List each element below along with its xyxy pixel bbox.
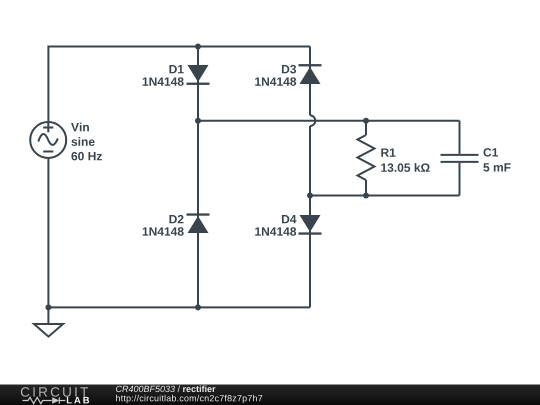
label D3 value 1N4148 <box>255 77 296 86</box>
voltage source Vin (sine) <box>30 122 66 158</box>
junction D1-D2 node to mid rail <box>195 118 201 124</box>
label C1 <box>483 148 498 157</box>
label R1 <box>381 148 395 156</box>
wire low rail <box>310 195 460 197</box>
footer title CR400BF5033 / rectifier <box>116 385 215 392</box>
diode D4 (1N4148, pointing down) <box>299 215 322 235</box>
junction bottom rail / source / ground <box>45 304 51 310</box>
label D2 value 1N4148 <box>143 227 184 236</box>
label D1 <box>169 65 183 73</box>
wire C1 top lead <box>459 121 461 154</box>
logo resistor squiggle and diode <box>23 397 66 403</box>
wire D1-D2 branch <box>197 47 199 308</box>
junction D3-D4 node to low rail <box>307 193 313 199</box>
label D4 value 1N4148 <box>255 227 296 236</box>
diode D2 (1N4148, pointing up) <box>187 213 210 233</box>
wire mid rail <box>198 120 460 122</box>
label sine <box>71 137 94 146</box>
label 60 Hz <box>71 152 101 161</box>
wire source bottom to bottom rail <box>48 158 310 307</box>
capacitor C1 <box>441 155 479 162</box>
diode D3 (1N4148, pointing up) <box>299 64 322 84</box>
label D3 <box>282 65 296 74</box>
label D1 value 1N4148 <box>143 77 184 86</box>
wire C1 bottom lead <box>459 163 461 196</box>
label D4 <box>282 215 296 223</box>
resistor R1 <box>358 121 375 196</box>
logo CIRCUIT <box>21 387 88 397</box>
wire hop over mid rail <box>310 115 315 126</box>
label R1 value 13.05 kOhm <box>381 163 429 172</box>
junction mid rail / R1 top <box>363 118 369 124</box>
label C1 value 5 mF <box>483 163 510 171</box>
ground <box>34 307 63 336</box>
logo LAB <box>67 397 89 404</box>
wire D3-D4 branch lower <box>309 126 311 307</box>
label D2 <box>169 215 183 223</box>
junction bottom rail / D2 cathode <box>195 304 201 310</box>
label Vin <box>71 123 89 132</box>
junction low rail / R1 bottom <box>363 193 369 199</box>
footer url <box>116 395 262 403</box>
wire top rail <box>48 47 310 123</box>
wire D3 branch upper <box>309 47 311 116</box>
diode D1 (1N4148, pointing down) <box>187 65 210 85</box>
footer bar <box>0 385 540 405</box>
junction top rail / D1 anode <box>195 44 201 50</box>
